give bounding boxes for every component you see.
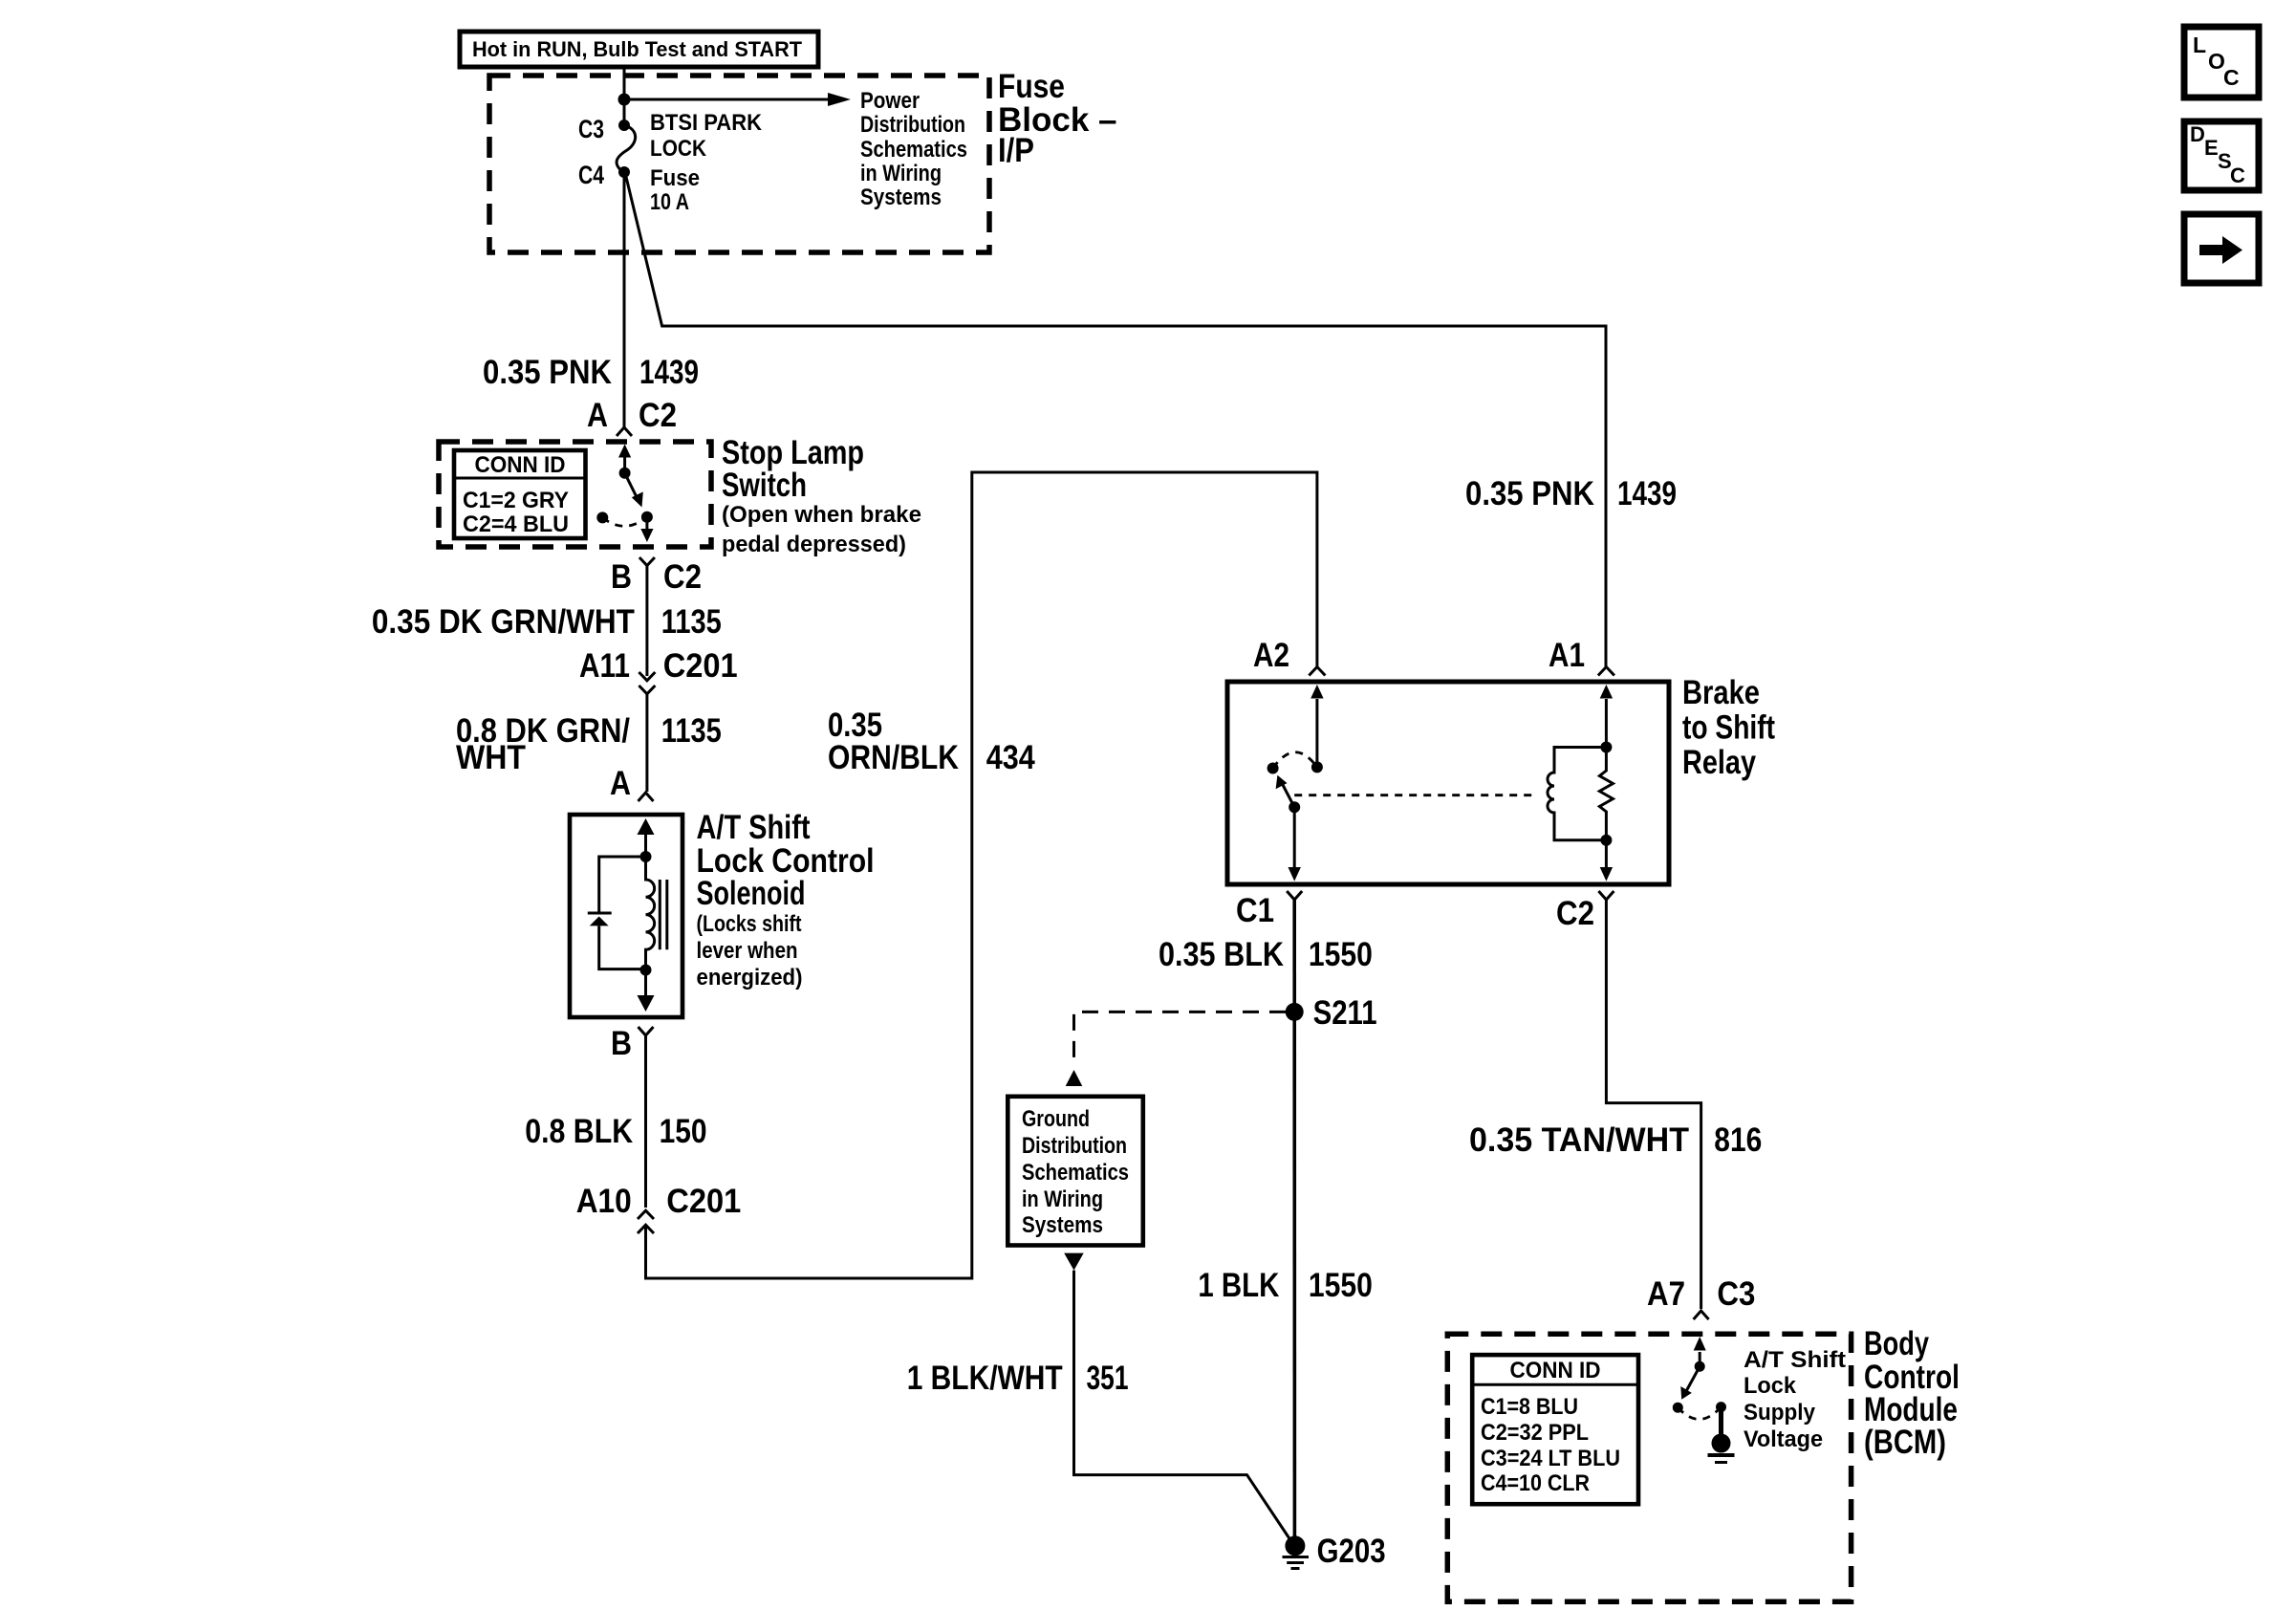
svg-text:C2: C2 [639,397,677,434]
connector terminal B below solenoid [639,1027,654,1035]
relay switch blade with arrowhead [1282,783,1294,807]
svg-text:C3: C3 [578,115,604,143]
svg-text:(Locks shift: (Locks shift [697,911,802,937]
svg-text:C1=8 BLU: C1=8 BLU [1481,1394,1578,1420]
solenoid input arrow down into box [644,834,647,857]
in-line connector C201 chevrons [639,672,655,681]
svg-text:Fuse: Fuse [650,165,700,191]
fuse BTSI PARK LOCK 10A: element symbol [618,120,630,131]
svg-text:434: 434 [986,739,1035,776]
svg-text:A10: A10 [576,1183,632,1220]
connector terminal A1 [1598,667,1614,676]
svg-text:Relay: Relay [1682,744,1756,781]
stop lamp switch contact arrow up [623,456,626,473]
svg-text:Voltage: Voltage [1744,1426,1823,1452]
svg-text:in Wiring: in Wiring [1022,1186,1103,1212]
svg-text:Power: Power [860,88,920,114]
wire 0.8 DK GRN/WHT from C201 to solenoid [645,694,648,792]
fuse block dashed box: Fuse Block - I/P [489,76,989,252]
in-line connector C201 chevrons [638,1210,654,1219]
svg-text:1550: 1550 [1309,1267,1373,1304]
svg-text:C1=2 GRY: C1=2 GRY [463,488,569,513]
svg-text:1 BLK: 1 BLK [1198,1267,1279,1304]
BCM switch pivot node [1695,1361,1705,1372]
svg-text:C: C [2230,163,2245,187]
svg-text:Switch: Switch [722,467,807,504]
svg-text:1135: 1135 [661,603,722,641]
switch left contact node [596,512,608,523]
svg-text:A/T Shift: A/T Shift [1744,1347,1846,1373]
svg-text:CONN ID: CONN ID [1510,1358,1601,1383]
svg-text:energized): energized) [697,965,803,991]
solenoid core lines [659,880,661,949]
svg-text:S211: S211 [1313,994,1377,1032]
svg-text:351: 351 [1087,1360,1129,1397]
wire from fuse C4 to brake to shift relay A1 [626,177,1606,666]
svg-text:Schematics: Schematics [860,137,967,163]
connector terminal C1 [1287,891,1302,900]
switch pivot node [619,468,631,479]
svg-text:C201: C201 [666,1183,741,1220]
dashed travel arc [602,517,647,527]
svg-text:pedal depressed): pedal depressed) [722,532,906,557]
svg-text:0.35 DK GRN/WHT: 0.35 DK GRN/WHT [372,603,635,641]
next-page arrow icon button [2184,214,2259,283]
svg-text:Ground: Ground [1022,1106,1090,1132]
clamp diode D1 branch [599,857,646,913]
wire 0.35 TAN/WHT from relay C2 to BCM [1606,900,1700,1309]
svg-text:C2: C2 [1556,895,1594,932]
svg-text:BTSI PARK: BTSI PARK [650,110,763,136]
relay coil node bottom [1600,835,1612,846]
svg-text:to Shift: to Shift [1682,709,1775,747]
svg-text:C2=4 BLU: C2=4 BLU [463,512,569,537]
svg-text:C: C [2223,65,2240,90]
svg-text:ORN/BLK: ORN/BLK [828,739,959,776]
svg-text:G203: G203 [1317,1533,1386,1570]
svg-text:Distribution: Distribution [1022,1133,1127,1159]
svg-text:in Wiring: in Wiring [860,161,942,186]
relay C1 output arrow down [1293,807,1296,867]
svg-text:C2: C2 [663,558,702,596]
svg-text:A: A [587,397,608,434]
relay A2 input arrow up [1315,699,1318,767]
relay switch left contact node [1267,763,1279,774]
relay coil node top [1600,742,1612,753]
svg-text:0.8 BLK: 0.8 BLK [525,1113,633,1150]
svg-text:I/P: I/P [998,132,1034,169]
connector terminal B below switch [639,557,655,566]
svg-text:WHT: WHT [456,739,526,776]
ground distribution schematics box [1007,1097,1143,1246]
svg-text:(Open when brake: (Open when brake [722,502,921,528]
svg-text:C3=24 LT BLU: C3=24 LT BLU [1481,1446,1620,1471]
svg-text:C2=32 PPL: C2=32 PPL [1481,1420,1589,1446]
relay coil output arrow down [1605,840,1608,867]
BCM input arrow up [1699,1352,1701,1366]
wire 0.35 BLK from relay C1 to S211 [1292,900,1296,1536]
solenoid output arrow down [644,975,647,996]
svg-text:Body: Body [1864,1325,1929,1362]
CONN ID table (BCM) [1472,1355,1638,1504]
switch blade with arrowhead [625,473,639,501]
svg-text:Lock: Lock [1744,1373,1797,1399]
svg-text:Solenoid: Solenoid [697,875,806,912]
svg-text:1439: 1439 [639,354,699,391]
A/T shift lock control solenoid box [570,815,682,1017]
svg-text:A1: A1 [1549,637,1585,674]
wire from C201 up to relay A2 [646,472,1317,1278]
wire DK GRN/WHT from switch to C201 [645,566,648,677]
svg-text:150: 150 [660,1113,707,1150]
svg-text:1 BLK/WHT: 1 BLK/WHT [907,1360,1063,1397]
connector terminal A at stop lamp switch [617,427,632,436]
svg-text:Schematics: Schematics [1022,1160,1129,1186]
switch lower contact node [641,512,653,523]
dashed reference from S211 to ground distribution [1074,1012,1287,1065]
svg-text:C1: C1 [1236,892,1274,929]
LOC icon button [2184,27,2259,98]
stop lamp switch dashed box [439,442,711,547]
relay A1 input arrow up [1605,699,1608,748]
body control module dashed box [1447,1334,1851,1601]
svg-text:A7: A7 [1647,1275,1685,1313]
svg-text:C201: C201 [663,647,738,685]
svg-text:1550: 1550 [1309,936,1373,973]
wire PNK down from fuse to stop lamp switch [623,172,626,427]
ground G203 [1283,1533,1386,1570]
svg-text:(BCM): (BCM) [1864,1424,1946,1461]
BCM switch lower contact node [1673,1403,1683,1413]
svg-text:Systems: Systems [1022,1212,1103,1238]
svg-text:lever when: lever when [697,938,798,964]
BCM right contact node [1716,1402,1726,1412]
svg-text:Systems: Systems [860,185,942,210]
dashed travel arc [1273,752,1317,769]
svg-text:C3: C3 [1717,1275,1755,1313]
wire 0.8 BLK from solenoid to C201 [644,1035,647,1208]
svg-text:Distribution: Distribution [860,112,965,138]
svg-text:Fuse: Fuse [998,68,1065,105]
connector terminal A at solenoid [639,793,654,801]
svg-text:Brake: Brake [1682,674,1760,711]
solenoid coil L1 [646,857,655,975]
connector terminal C2 [1598,891,1614,900]
svg-text:B: B [611,1025,632,1062]
junction node in fuse block [618,94,631,106]
relay coil K1 [1548,748,1606,840]
brake to shift relay box [1227,682,1669,884]
svg-text:A/T Shift: A/T Shift [697,809,811,846]
splice S211 [1286,1003,1304,1021]
svg-text:D: D [2190,122,2205,146]
title box: Hot in RUN, Bulb Test and START [460,32,818,67]
svg-text:0.35 PNK: 0.35 PNK [483,354,612,391]
CONN ID table (stop lamp switch) [454,450,586,538]
svg-text:10 A: 10 A [650,189,689,215]
svg-text:816: 816 [1714,1121,1762,1159]
arrow out of ground distribution box [1064,1253,1084,1271]
relay switch common node [1311,761,1323,773]
solenoid top junction node [640,851,652,862]
dashed actuation link to coil [1294,794,1536,796]
solenoid bottom junction node [640,965,652,976]
svg-text:Supply: Supply [1744,1400,1816,1426]
svg-text:CONN ID: CONN ID [475,452,566,478]
svg-text:C4: C4 [578,161,604,189]
relay resistor R1 [1599,748,1613,840]
svg-text:A: A [610,765,631,802]
svg-text:C4=10 CLR: C4=10 CLR [1481,1470,1590,1496]
dashed travel arc [1678,1407,1721,1420]
svg-text:B: B [611,558,632,596]
switch output arrow down [645,517,648,529]
internal ground at BCM [1708,1407,1735,1463]
connector terminal A2 [1309,667,1325,676]
DESC icon button [2184,121,2259,190]
BCM switch blade with arrowhead [1685,1366,1700,1393]
wire 1 BLK/WHT to G203 [1074,1271,1291,1541]
wire from title box into fuse block [623,67,626,125]
svg-text:A2: A2 [1253,637,1289,674]
svg-text:Hot in RUN, Bulb Test and STAR: Hot in RUN, Bulb Test and START [472,37,803,61]
wire arrow to Power Distribution note [624,98,832,101]
svg-text:E: E [2204,136,2219,160]
relay switch lower node [1289,801,1300,813]
diode D1 [588,912,612,915]
svg-text:1439: 1439 [1617,475,1677,512]
svg-text:0.35 TAN/WHT: 0.35 TAN/WHT [1469,1121,1689,1159]
connector terminal at BCM [1694,1311,1709,1319]
svg-text:L: L [2193,33,2206,57]
svg-text:0.35 BLK: 0.35 BLK [1159,936,1284,973]
svg-text:A11: A11 [579,647,630,685]
svg-text:1135: 1135 [661,712,722,750]
svg-text:LOCK: LOCK [650,136,707,162]
svg-text:0.35 PNK: 0.35 PNK [1465,475,1594,512]
